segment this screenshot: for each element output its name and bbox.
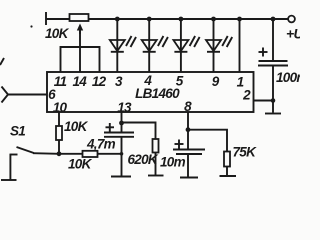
wire (pin 8 node to R5) [188,130,227,152]
node (rail junction LED2) [147,17,152,22]
svg-text:S1: S1 [10,124,25,139]
ground (pin 2 end bar) [265,113,281,115]
wire (R4 to ground) [155,153,157,176]
node (rail junction LED1) [115,17,120,22]
resistor R5 75K [224,145,257,167]
node (pin 2 / C1 junction) [271,98,276,103]
resistor R2 10K [56,119,89,140]
ground (below R5) [220,175,237,177]
svg-text:+U: +U [286,26,300,42]
wire (rail to pin 1) [239,19,241,72]
svg-text:13: 13 [117,100,132,115]
wire (C2 to ground) [121,137,123,176]
svg-text:3: 3 [115,74,123,89]
LED D1 [110,19,136,72]
svg-text:2: 2 [242,88,251,103]
stray mark (left edge) [0,58,4,65]
wire (switch to node) [33,152,59,155]
svg-text:5: 5 [176,74,184,89]
resistor R4 620K [128,139,159,167]
wire (R5 to ground) [226,167,228,176]
capacitor C2 4,7m [86,123,134,152]
svg-text:620K: 620K [128,152,159,167]
wire (wiper to pin 14) [79,30,81,72]
potentiometer R1 10K [45,14,89,41]
node (pin 13 junction) [119,121,124,126]
resistor R3 10K [59,151,122,172]
svg-text:8: 8 [184,99,192,114]
terminal +U [286,16,304,42]
terminal (top-left end bar) [45,12,47,25]
svg-text:14: 14 [72,74,87,89]
svg-text:11: 11 [54,74,67,89]
node (rail junction LED4) [211,17,216,22]
capacitor C3 10m [160,140,205,170]
wire (R2 to node) [58,140,60,154]
switch S1 [10,124,34,180]
node (switch / R2 / R3 junction) [57,151,62,156]
terminal (bottom-left end bar) [1,179,17,181]
wire (pin 2 to C1 node) [254,100,274,102]
ground (below C2) [111,176,131,178]
node (rail junction C1) [271,17,276,22]
node (rail junction pin 1) [237,17,242,22]
svg-text:LB1460: LB1460 [135,86,180,101]
wire (pin 13 to C2) [121,112,123,133]
LED D3 [173,19,199,72]
LED D2 [142,19,168,72]
IC U1 LB1460 [47,72,254,112]
svg-text:10: 10 [53,100,68,115]
node (pin 8 junction) [186,127,191,132]
svg-text:10K: 10K [68,157,93,172]
wire (bracket joining pins 11 and 12) [61,47,100,72]
wire (C3 to ground) [187,154,189,177]
node (R3 / C2 ground leg) [120,152,124,156]
svg-text:10K: 10K [45,26,70,41]
svg-text:10K: 10K [64,119,89,134]
ground (below C3) [180,177,198,179]
LED D4 [206,19,232,72]
wire (input to pin 6) [8,94,47,96]
wire (top supply rail) [89,18,289,20]
input terminal (chevron) [2,87,9,103]
wire (pin 8 down) [187,112,189,150]
wire (pin 13 node to R4) [122,123,156,140]
node (rail junction LED3) [179,17,184,22]
ground (below R4) [148,175,164,177]
svg-text:9: 9 [212,74,220,89]
capacitor C1 100m [258,19,308,85]
svg-text:100m: 100m [276,70,300,85]
svg-text:10m: 10m [160,155,186,170]
svg-text:4,7m: 4,7m [86,137,116,152]
wire (pin 10 to R2) [58,112,60,126]
wire (terminal to potentiometer) [46,18,70,20]
svg-text:12: 12 [92,74,107,89]
wire (C1 to pin 2 node) [272,66,274,113]
svg-text:75K: 75K [233,145,258,160]
stray mark (speck near 10K) [30,25,32,27]
svg-text:4: 4 [143,73,152,88]
